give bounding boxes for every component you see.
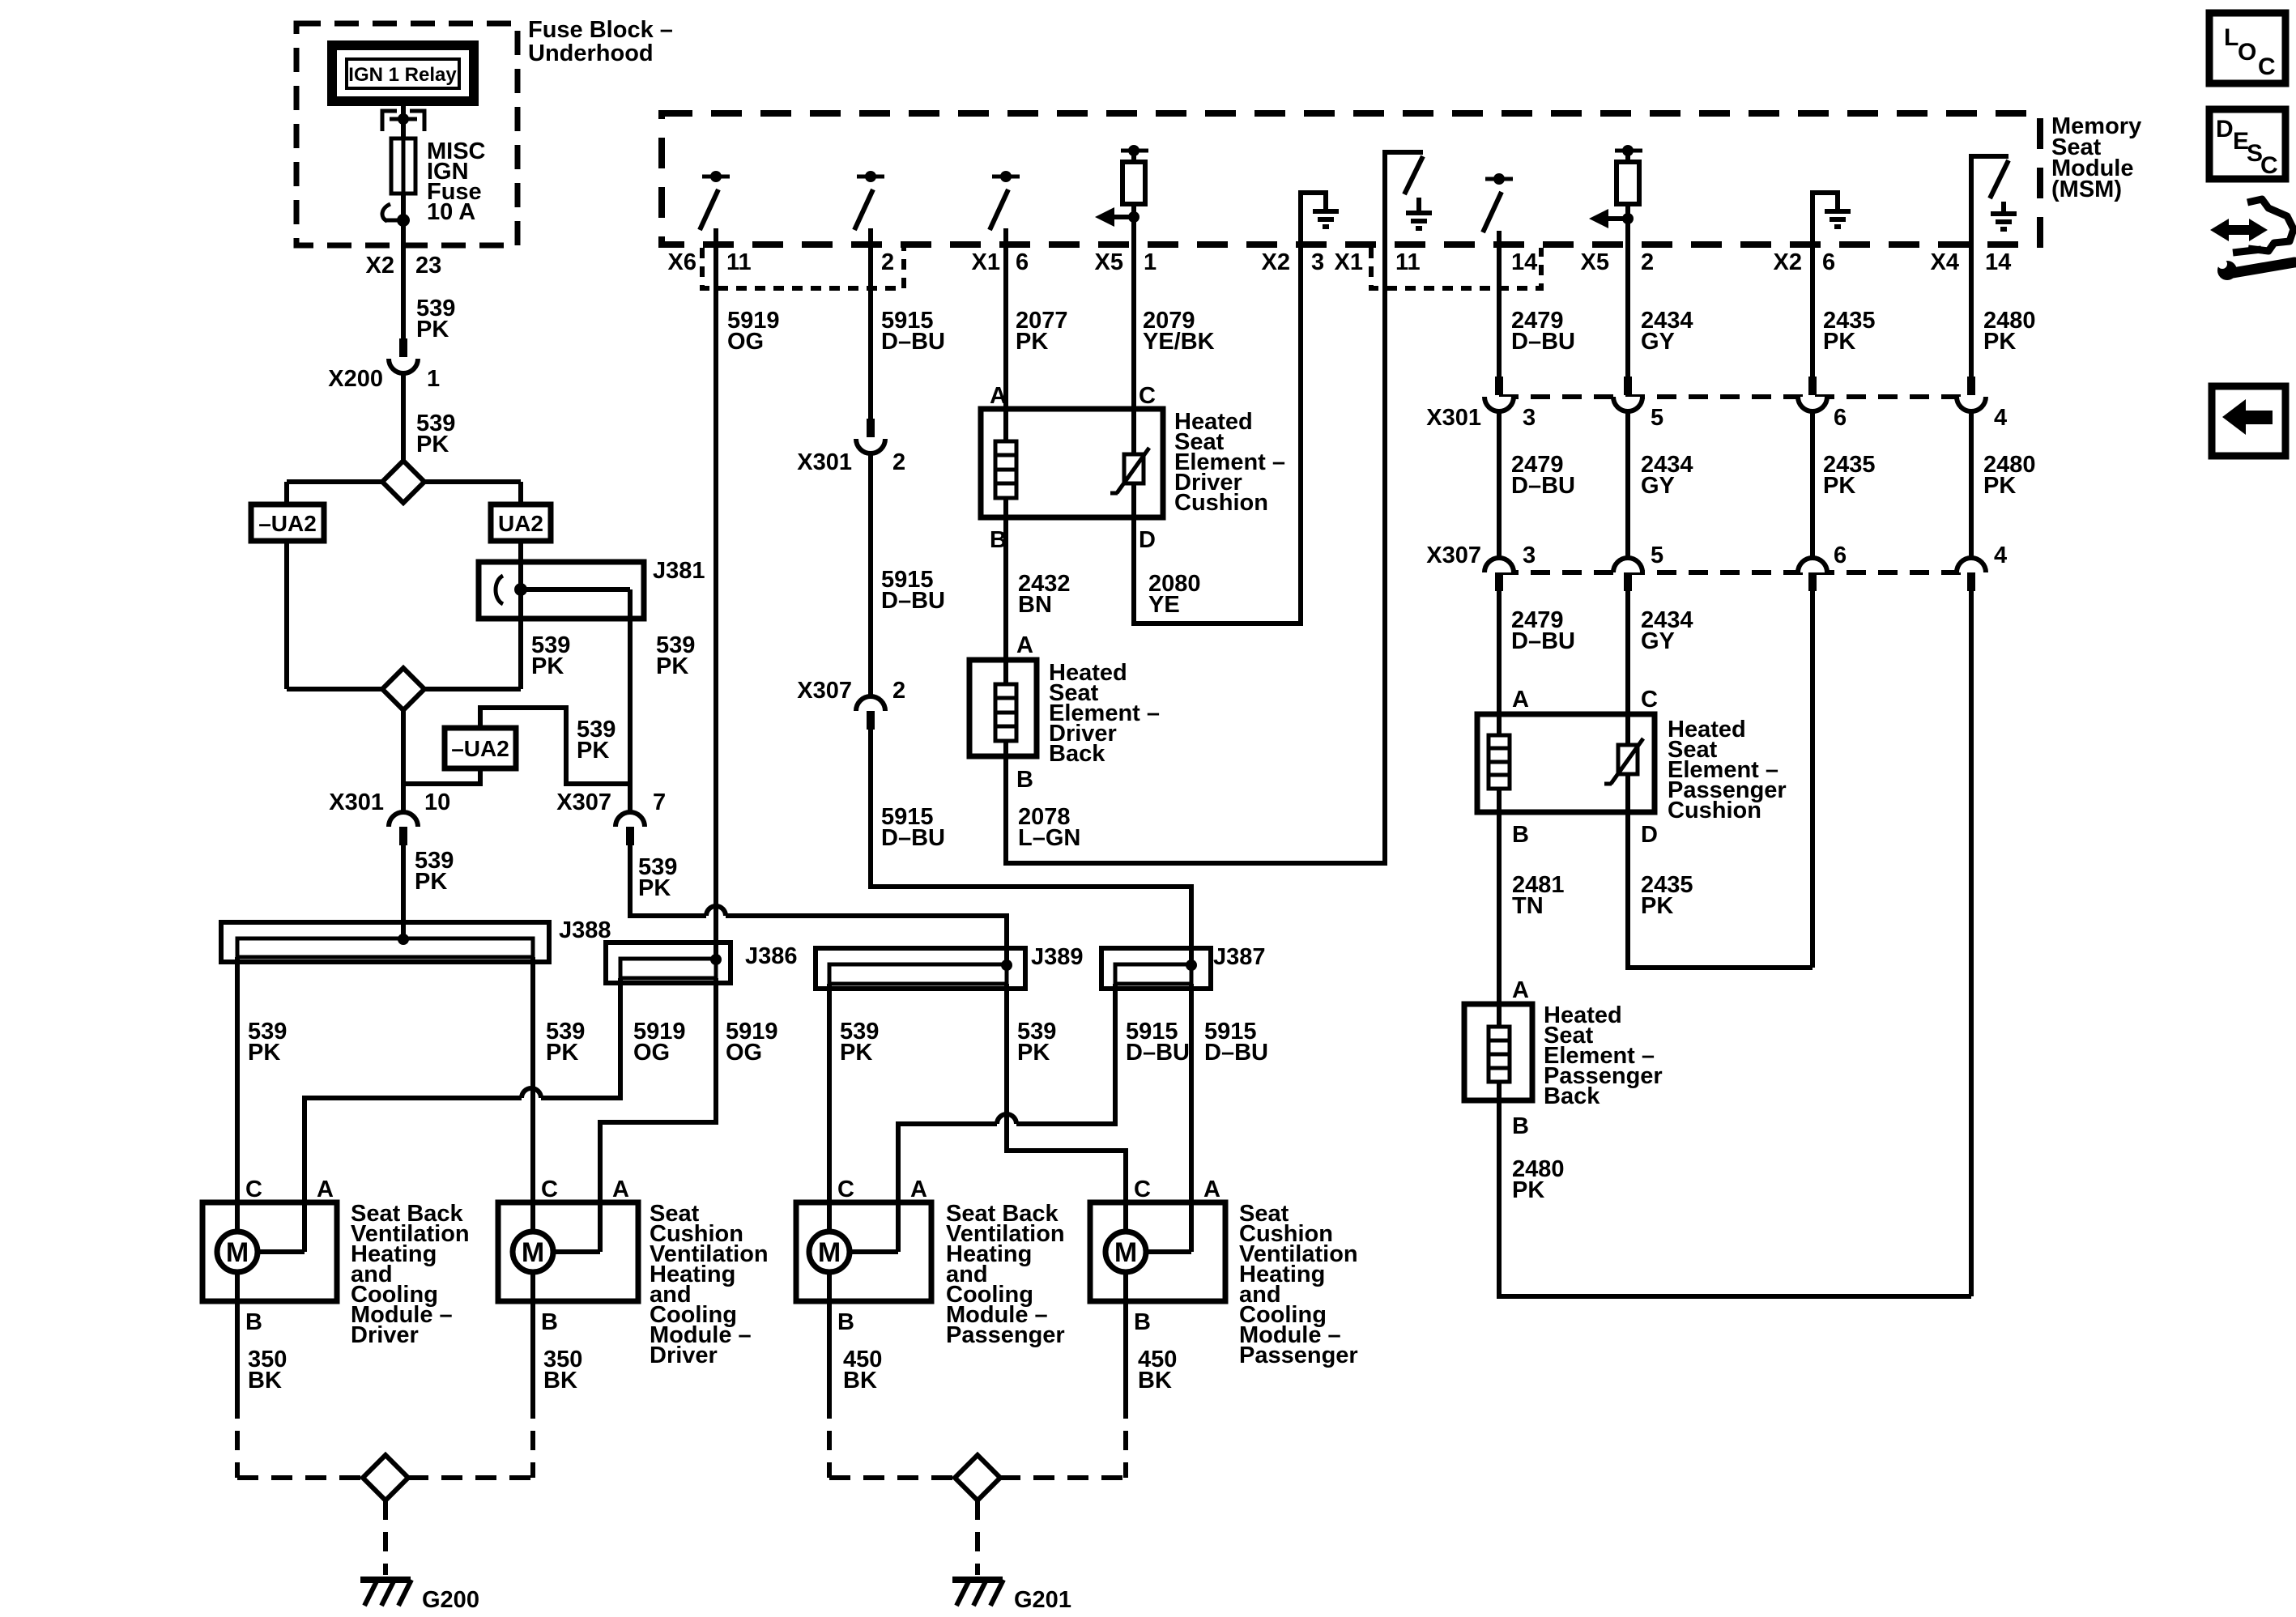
svg-text:Cushion: Cushion: [1174, 490, 1268, 516]
svg-text:D–BU: D–BU: [1204, 1040, 1268, 1066]
heated seat element driver back box: [969, 660, 1037, 756]
wire label 2434 GY: [1641, 452, 1693, 499]
svg-text:B: B: [1512, 822, 1529, 848]
svg-text:C: C: [837, 1177, 854, 1202]
svg-text:X301: X301: [1426, 405, 1481, 431]
svg-text:G200: G200: [422, 1587, 479, 1613]
connector X6 dashed outline: [702, 248, 904, 288]
svg-text:M: M: [522, 1237, 544, 1268]
pin label B module2: [541, 1309, 558, 1335]
wire label 2435 PK: [1641, 872, 1693, 919]
connector X301 pin 6: [1798, 377, 1847, 431]
svg-text:BK: BK: [248, 1368, 282, 1394]
wire label 539 PK: [248, 1019, 287, 1066]
splice pack J388: [221, 917, 611, 962]
svg-text:A: A: [1203, 1177, 1220, 1202]
svg-text:J389: J389: [1031, 944, 1084, 970]
svg-text:PK: PK: [416, 317, 449, 343]
wire label 539 PK to J386 rail: [638, 854, 677, 901]
svg-text:C: C: [541, 1177, 558, 1202]
MSM switch X6-11: [700, 171, 730, 245]
label heated seat element passenger back: [1544, 1002, 1663, 1109]
svg-text:B: B: [837, 1309, 854, 1335]
svg-text:D–BU: D–BU: [881, 588, 945, 614]
svg-text:X2: X2: [366, 253, 394, 279]
label seat back ventilation module driver: [351, 1201, 470, 1348]
svg-text:11: 11: [726, 249, 752, 275]
svg-text:D: D: [1139, 527, 1156, 553]
wire 350 BK module2 B: [533, 1272, 582, 1478]
wire 350 BK module1 B: [237, 1272, 287, 1478]
svg-text:PK: PK: [1983, 329, 2016, 355]
svg-text:BK: BK: [843, 1368, 877, 1394]
svg-text:UA2: UA2: [498, 511, 543, 536]
svg-text:A: A: [990, 383, 1007, 409]
wire 5919 OG X6-11 to J386: [714, 245, 718, 960]
svg-text:PK: PK: [840, 1040, 872, 1066]
svg-text:D–BU: D–BU: [1126, 1040, 1190, 1066]
svg-text:C: C: [1139, 383, 1156, 409]
svg-text:A: A: [1016, 632, 1033, 658]
label seat cushion ventilation module passenger: [1239, 1201, 1358, 1368]
svg-text:B: B: [541, 1309, 558, 1335]
wire label 2435 PK: [1823, 308, 1876, 355]
MSM switch to ground X1-11: [1385, 152, 1432, 245]
connector X301 pin 3: [1426, 377, 1536, 431]
MSM switch X6-2: [854, 171, 884, 245]
svg-text:PK: PK: [1016, 329, 1048, 355]
label heated seat element driver cushion: [1174, 409, 1285, 516]
svg-text:PK: PK: [248, 1040, 280, 1066]
wire 2435 PK X2-6 to X301: [1810, 245, 1815, 377]
fuse block internal tap with hook: [382, 204, 410, 227]
svg-text:X307: X307: [797, 678, 852, 704]
connector row X301 dashed jumper: [1499, 394, 1971, 399]
svg-text:D–BU: D–BU: [1511, 329, 1575, 355]
svg-text:4: 4: [1994, 405, 2007, 431]
wire splice S2 down to X301: [401, 710, 406, 811]
label Memory Seat Module (MSM): [2051, 113, 2141, 202]
pin label B passenger back: [1512, 1113, 1529, 1139]
svg-text:C: C: [1641, 687, 1658, 713]
svg-text:D: D: [2216, 116, 2234, 143]
MSM switch X1-14: [1483, 173, 1513, 245]
svg-text:B: B: [245, 1309, 262, 1335]
svg-text:14: 14: [1511, 249, 1537, 275]
wire 2481 TN passenger cushion B to back A: [1497, 812, 1502, 1004]
wire 2480 PK passenger back B loop to X307-4: [1499, 1100, 1971, 1296]
splice S2 diamond: [382, 668, 424, 710]
svg-text:2: 2: [892, 449, 905, 475]
svg-text:PK: PK: [1983, 473, 2016, 499]
motor M module1: [217, 1232, 305, 1272]
wire label 2080 YE: [1148, 571, 1201, 618]
heated seat element passenger cushion box: [1477, 714, 1655, 812]
svg-text:3: 3: [1523, 543, 1536, 568]
svg-text:X1: X1: [1335, 249, 1363, 275]
svg-text:23: 23: [415, 253, 441, 279]
svg-text:PK: PK: [531, 653, 564, 679]
wire 5915 D-BU X6-2 to X301: [868, 245, 873, 419]
wire 2434 GY X5-2 to X301: [1625, 245, 1630, 377]
wire label 5919 OG left: [633, 1019, 686, 1066]
svg-text:3: 3: [1311, 249, 1324, 275]
svg-text:Fuse Block –: Fuse Block –: [528, 17, 673, 43]
svg-text:D–BU: D–BU: [881, 329, 945, 355]
svg-text:X200: X200: [328, 366, 383, 392]
svg-text:B: B: [1134, 1309, 1151, 1335]
pin labels B D driver cushion: [990, 527, 1156, 553]
wire label 5915 D-BU: [881, 308, 945, 355]
seat cushion ventilation module driver box: [498, 1202, 638, 1301]
svg-text:J386: J386: [745, 943, 798, 969]
svg-text:PK: PK: [1823, 473, 1855, 499]
svg-text:X2: X2: [1262, 249, 1290, 275]
wire 2079 YE/BK X5-1 to element C: [1131, 245, 1136, 454]
pin labels C A module1: [245, 1177, 334, 1202]
fuse MISC IGN Fuse 10 A: [391, 138, 486, 225]
wire 2480 PK X301-4 to X307-4: [1969, 411, 1974, 558]
svg-text:O: O: [2238, 39, 2256, 66]
wire label 539 PK: [416, 411, 455, 457]
connector X301 pin 10: [329, 789, 450, 845]
wire label 2480 PK: [1983, 452, 2036, 499]
MSM sensor resistor X5-1: [1095, 145, 1148, 245]
heated seat element passenger back box: [1464, 1004, 1532, 1100]
wire label 539 PK: [840, 1019, 879, 1066]
svg-text:OG: OG: [633, 1040, 670, 1066]
svg-text:Passenger: Passenger: [946, 1322, 1065, 1348]
svg-text:1: 1: [1144, 249, 1157, 275]
svg-text:3: 3: [1523, 405, 1536, 431]
pin label B module1: [245, 1309, 262, 1335]
svg-text:J381: J381: [653, 558, 705, 584]
svg-text:GY: GY: [1641, 329, 1675, 355]
svg-text:PK: PK: [577, 738, 609, 764]
svg-text:YE: YE: [1148, 592, 1180, 618]
wire label 2435 PK: [1823, 452, 1876, 499]
svg-text:X4: X4: [1931, 249, 1959, 275]
svg-text:X5: X5: [1095, 249, 1123, 275]
wire 5919 OG J386 right to module2 A: [600, 978, 716, 1252]
svg-text:B: B: [1016, 767, 1033, 793]
wire label 539 PK left of J381 leg: [531, 632, 570, 679]
svg-text:J387: J387: [1213, 944, 1266, 970]
motor M module2: [513, 1232, 600, 1272]
wire 2434 GY X307-5 to passenger cushion C: [1625, 591, 1630, 745]
svg-text:PK: PK: [638, 875, 671, 901]
wire jog through -UA2 second: [403, 708, 630, 784]
wire X200 to splice: [401, 373, 406, 462]
wire 539 PK J389 right to module4 C: [1007, 984, 1126, 1232]
wire label 5915 D-BU: [881, 567, 945, 614]
svg-text:–UA2: –UA2: [258, 511, 317, 536]
svg-text:C: C: [2258, 53, 2276, 80]
wire label 2434 GY: [1641, 308, 1693, 355]
ground bus G200 dashed: [237, 1475, 533, 1480]
connector X301 pin 4: [1957, 377, 2007, 431]
svg-text:2: 2: [892, 678, 905, 704]
svg-text:OG: OG: [727, 329, 764, 355]
connector X307 pin 5: [1613, 543, 1663, 591]
svg-text:A: A: [612, 1177, 629, 1202]
svg-text:1: 1: [427, 366, 440, 392]
svg-text:C: C: [1134, 1177, 1151, 1202]
wire 2479 D-BU X301-3 to X307-3: [1497, 411, 1502, 558]
wire 5915 D-BU J387 left to module3 A: [898, 984, 1115, 1252]
wire label 2479 D-BU: [1511, 607, 1575, 654]
icon DESC box: [2209, 109, 2285, 179]
motor M module4: [1105, 1232, 1191, 1272]
svg-text:C: C: [245, 1177, 262, 1202]
connector labels X1 6: [972, 249, 1029, 275]
svg-text:BK: BK: [1138, 1368, 1172, 1394]
fuse block underhood dashed enclosure: [296, 23, 518, 245]
wire 5919 OG J386 left to module1 A: [305, 978, 620, 1252]
wire label 539 PK: [1017, 1019, 1056, 1066]
svg-text:–UA2: –UA2: [451, 736, 509, 761]
label seat cushion ventilation module driver: [650, 1201, 769, 1368]
svg-text:A: A: [1512, 687, 1529, 713]
wire label 5915 D-BU: [881, 804, 945, 851]
svg-text:X301: X301: [797, 449, 852, 475]
thermistor symbol driver cushion: [1110, 448, 1149, 517]
wire label 5919 OG: [727, 308, 780, 355]
icon LOC box: [2209, 13, 2285, 83]
pin label A driver back: [1016, 632, 1033, 658]
connector X307 pin 2: [797, 678, 905, 730]
relay IGN 1 Relay: [332, 45, 474, 101]
pin label A passenger back: [1512, 977, 1529, 1003]
wire label 539 PK: [546, 1019, 585, 1066]
svg-text:Underhood: Underhood: [528, 40, 654, 66]
wire label 2434 GY: [1641, 607, 1693, 654]
svg-text:J388: J388: [559, 917, 611, 943]
connector labels X2 3: [1262, 249, 1325, 275]
MSM switch X1-6: [990, 171, 1020, 245]
pin labels B D passenger cushion: [1512, 822, 1658, 848]
svg-text:Passenger: Passenger: [1239, 1343, 1358, 1368]
MSM switch to ground X4-14: [1971, 156, 2017, 245]
connector X307 pin 4: [1957, 543, 2007, 591]
svg-text:5: 5: [1651, 405, 1663, 431]
svg-text:X307: X307: [556, 789, 611, 815]
splice diamond G201 bus: [955, 1455, 1000, 1500]
svg-text:X2: X2: [1774, 249, 1802, 275]
wire to -UA2 left: [284, 482, 289, 504]
svg-text:PK: PK: [1641, 893, 1673, 919]
svg-text:BK: BK: [543, 1368, 577, 1394]
connector X301 pin 5: [1613, 377, 1663, 431]
wire lower splice rail: [287, 687, 521, 691]
svg-text:B: B: [1512, 1113, 1529, 1139]
connector labels X4 14: [1931, 249, 2012, 275]
thermistor symbol passenger cushion: [1604, 738, 1643, 812]
pin label B module3: [837, 1309, 854, 1335]
icon back arrow box: [2212, 386, 2285, 456]
wire label 2481 TN: [1512, 872, 1565, 919]
MSM ground elbow X2-6: [1813, 193, 1851, 245]
wire splice horizontal rail upper: [287, 479, 521, 484]
ground bus G201 dashed: [829, 1475, 1126, 1480]
connector X307 pin 7: [556, 789, 666, 845]
option box UA2: [491, 504, 551, 541]
svg-text:6: 6: [1822, 249, 1835, 275]
wire 2078 L-GN driver back B to X1-11: [1006, 245, 1385, 863]
wire 539 PK J389 left to module3 C: [827, 984, 832, 1232]
icon hand with arrow and wrench: [2210, 199, 2294, 280]
splice S1 diamond: [382, 461, 424, 503]
svg-text:PK: PK: [656, 653, 688, 679]
svg-text:X5: X5: [1581, 249, 1609, 275]
wire J388 left 539 PK to module1 C: [235, 957, 240, 1232]
wire 2080 YE element D to X2-3: [1134, 245, 1301, 623]
option box -UA2: [251, 504, 324, 541]
option box -UA2 second: [445, 728, 516, 768]
svg-text:YE/BK: YE/BK: [1143, 329, 1215, 355]
connector X301 pin 2: [797, 419, 905, 475]
wire label 2432 BN: [1018, 571, 1071, 618]
svg-text:D–BU: D–BU: [1511, 628, 1575, 654]
wire label 539 PK right leg: [656, 632, 695, 679]
wire label 2479 D-BU: [1511, 308, 1575, 355]
svg-text:6: 6: [1834, 543, 1847, 568]
svg-text:X6: X6: [668, 249, 696, 275]
motor M module3: [809, 1232, 898, 1272]
connector labels X5 1: [1095, 249, 1157, 275]
wire 450 BK module3 B: [829, 1272, 882, 1478]
svg-text:Cushion: Cushion: [1668, 798, 1761, 823]
svg-text:L: L: [2224, 24, 2238, 51]
svg-text:TN: TN: [1512, 893, 1544, 919]
wire 2435 PK X301-6 to X307-6: [1810, 411, 1815, 558]
svg-text:G201: G201: [1014, 1587, 1071, 1613]
svg-text:C: C: [2260, 152, 2278, 179]
wire 5915 D-BU J387 right to module4 A: [1189, 984, 1194, 1252]
svg-text:PK: PK: [1017, 1040, 1050, 1066]
wire 450 BK module4 B: [1126, 1272, 1177, 1478]
connector labels X2 6: [1774, 249, 1836, 275]
svg-text:6: 6: [1834, 405, 1847, 431]
svg-text:PK: PK: [546, 1040, 578, 1066]
svg-text:D: D: [1641, 822, 1658, 848]
splice pack J381: [479, 558, 705, 619]
label heated seat element driver back: [1049, 660, 1160, 767]
svg-text:10 A: 10 A: [427, 199, 475, 225]
wire relay to fuse: [401, 101, 406, 219]
wire label 2077 PK: [1016, 308, 1068, 355]
heated seat element driver cushion box: [981, 409, 1163, 517]
connector X1 dashed outline: [1371, 248, 1541, 288]
wire to UA2 right: [518, 482, 523, 504]
wire 2077 PK X1-6 to element A: [1003, 245, 1008, 441]
seat cushion ventilation module passenger box: [1090, 1202, 1225, 1301]
wire 2479 D-BU X1-14 to X301: [1497, 245, 1502, 377]
wire fuse to connector X2 pin 23: [401, 219, 406, 338]
svg-text:6: 6: [1016, 249, 1029, 275]
wire 5915 D-BU X301-2 to X307-2: [868, 453, 873, 696]
svg-text:2: 2: [881, 249, 894, 275]
connector X307 pin 6: [1798, 543, 1847, 591]
wire label 2078 L-GN: [1018, 804, 1080, 851]
svg-text:GY: GY: [1641, 473, 1675, 499]
svg-text:PK: PK: [415, 869, 447, 895]
heating element symbol driver cushion: [995, 409, 1016, 517]
svg-text:(MSM): (MSM): [2051, 177, 2122, 202]
seat back ventilation module passenger box: [796, 1202, 931, 1301]
svg-text:M: M: [1114, 1237, 1137, 1268]
wire 2479 D-BU X307-3 to passenger cushion A: [1497, 591, 1502, 735]
svg-text:OG: OG: [726, 1040, 762, 1066]
relay output terminal bracket: [382, 111, 424, 131]
pin labels A C heated seat element driver cushion: [990, 383, 1156, 409]
MSM sensor resistor X5-2: [1589, 145, 1642, 245]
wire label 2079 YE/BK: [1143, 308, 1215, 355]
wire -UA2 left leg down: [284, 541, 289, 689]
svg-text:11: 11: [1395, 249, 1421, 275]
splice pack J387: [1101, 944, 1266, 989]
pin labels C A module2: [541, 1177, 629, 1202]
wire 2435 PK passenger cushion D loop to X307-6: [1628, 812, 1813, 968]
label Fuse Block - Underhood: [528, 17, 673, 66]
svg-text:10: 10: [424, 789, 450, 815]
svg-text:4: 4: [1994, 543, 2007, 568]
heating element symbol driver back: [995, 660, 1016, 756]
svg-text:D–BU: D–BU: [1511, 473, 1575, 499]
svg-text:A: A: [910, 1177, 927, 1202]
svg-text:D–BU: D–BU: [881, 825, 945, 851]
wire 5915 D-BU X307-2 to J387: [871, 730, 1191, 964]
svg-text:GY: GY: [1641, 628, 1675, 654]
wire 2432 BN element B to driver back A: [1003, 517, 1008, 660]
wire 2434 GY X301-5 to X307-5: [1625, 411, 1630, 558]
svg-text:Back: Back: [1544, 1083, 1600, 1109]
connector labels X6 11 and 2: [668, 249, 895, 275]
svg-text:BN: BN: [1018, 592, 1052, 618]
label heated seat element passenger cushion: [1668, 717, 1787, 823]
svg-text:7: 7: [653, 789, 666, 815]
wire label 5915 D-BU: [1126, 1019, 1190, 1066]
connector row X307 dashed jumper: [1499, 570, 1971, 575]
wire stub to G201: [975, 1500, 980, 1575]
wire X301-10 to J388: [401, 845, 406, 941]
svg-text:X1: X1: [972, 249, 1000, 275]
wire stub to G200: [383, 1500, 388, 1575]
pin label B driver back: [1016, 767, 1033, 793]
svg-text:2: 2: [1641, 249, 1654, 275]
MSM ground elbow X2-3: [1301, 193, 1339, 245]
wire J388 right 539 PK to module2 C: [530, 957, 535, 1232]
wire J381 left leg 539 PK down: [518, 589, 523, 689]
wire 2480 PK X307-4 down: [1969, 591, 1974, 1296]
svg-text:IGN 1 Relay: IGN 1 Relay: [348, 64, 457, 86]
memory seat module dashed enclosure: [662, 113, 2040, 245]
splice pack J389: [816, 944, 1084, 989]
svg-text:Driver: Driver: [351, 1322, 419, 1348]
wire 2435 PK X307-6 down: [1810, 591, 1815, 968]
svg-text:Back: Back: [1049, 741, 1105, 767]
svg-text:5: 5: [1651, 543, 1663, 568]
svg-text:X307: X307: [1426, 543, 1481, 568]
pin labels C A module3: [837, 1177, 927, 1202]
svg-text:PK: PK: [1823, 329, 1855, 355]
heating element symbol passenger cushion: [1489, 714, 1510, 812]
connector X2 pin 23 labels: [366, 253, 442, 279]
svg-text:M: M: [818, 1237, 841, 1268]
ground G200: [360, 1580, 479, 1613]
connector labels X1 11 and 14: [1335, 249, 1538, 275]
svg-text:M: M: [226, 1237, 249, 1268]
